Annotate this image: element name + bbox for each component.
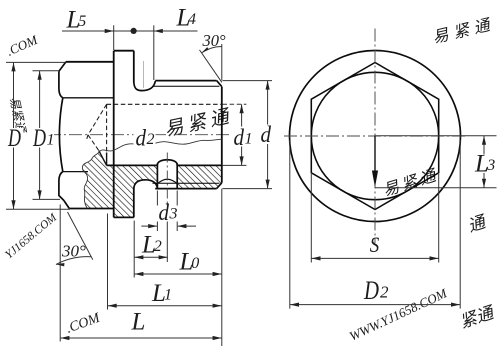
bore bottom wall right bbox=[177, 164, 222, 166]
svg-text:5: 5 bbox=[78, 13, 86, 30]
end chamfer top bbox=[217, 81, 222, 87]
thread OD top bbox=[155, 80, 216, 82]
30deg top slant bbox=[200, 50, 222, 82]
svg-text:D: D bbox=[32, 125, 46, 152]
svg-text:D: D bbox=[363, 276, 379, 305]
ext d1 bottom bbox=[223, 164, 247, 166]
30deg top arc bbox=[202, 47, 222, 53]
center vertical line bbox=[374, 29, 376, 244]
dim D line bbox=[13, 62, 15, 209]
collar right edge upper bbox=[133, 51, 135, 82]
dim d3 line left bbox=[141, 225, 157, 227]
ext L3 bottom bbox=[375, 187, 497, 189]
svg-text:3: 3 bbox=[169, 206, 178, 223]
ext groove right top bbox=[153, 25, 155, 80]
arrow d bottom bbox=[266, 180, 270, 189]
thread root top bbox=[153, 85, 220, 87]
dim L1 line bbox=[108, 305, 222, 307]
arrow L2 left bbox=[134, 255, 143, 259]
svg-text:D: D bbox=[7, 125, 21, 152]
neck groove top arc bbox=[134, 81, 156, 91]
collar bottom edge bbox=[114, 216, 134, 218]
svg-text:.COM: .COM bbox=[64, 310, 103, 336]
ext d1 top bbox=[223, 103, 247, 105]
30deg bottom slant bbox=[68, 212, 93, 260]
neck groove bottom arc bbox=[134, 180, 158, 189]
hex face line lower bbox=[63, 171, 88, 173]
svg-text:S: S bbox=[370, 232, 380, 257]
d3 hole inner arc bbox=[157, 179, 177, 184]
30deg bottom arc bbox=[56, 257, 91, 265]
arrow L4 bbox=[154, 29, 163, 33]
ext S right bbox=[438, 174, 440, 263]
label d1 bbox=[232, 127, 252, 147]
svg-text:d: d bbox=[136, 126, 147, 151]
hexagon bbox=[311, 63, 438, 210]
arrow d1 bottom bbox=[240, 156, 244, 165]
ext D1 top bbox=[33, 70, 59, 72]
dim L5 line bbox=[62, 30, 134, 32]
label d2 bbox=[134, 127, 156, 147]
svg-text:30°: 30° bbox=[61, 242, 86, 261]
dim L2 line bbox=[134, 256, 168, 258]
end chamfer bottom bbox=[217, 183, 222, 189]
ext d3 right bbox=[176, 191, 178, 232]
arrow d top bbox=[266, 81, 270, 90]
dim S line bbox=[311, 257, 438, 259]
svg-text:1: 1 bbox=[47, 132, 55, 149]
hex head left edge upper bbox=[59, 71, 63, 98]
ext D2 right bbox=[459, 140, 461, 309]
ext right common bbox=[221, 189, 223, 346]
arrow d1 top bbox=[240, 104, 244, 113]
bore hidden line top bbox=[107, 103, 222, 105]
arrow 30 top arc bbox=[202, 47, 209, 53]
30deg top vert ref bbox=[221, 44, 223, 80]
arrow D1 top bbox=[38, 71, 42, 80]
groove centerline faint bbox=[143, 61, 145, 88]
ext D2 left bbox=[289, 140, 291, 309]
ext L1 left bbox=[107, 214, 109, 310]
svg-text:紧通: 紧通 bbox=[457, 303, 497, 332]
hex head bottom chamfer bbox=[64, 201, 69, 209]
bore shoulder hidden bbox=[106, 104, 108, 152]
depth pointer shaft bbox=[374, 136, 376, 173]
ext d3 left bbox=[156, 191, 158, 232]
arrow L3 top bbox=[482, 136, 486, 145]
svg-text:4: 4 bbox=[188, 11, 196, 28]
hex head bottom edge bbox=[69, 208, 113, 210]
ext d top bbox=[223, 80, 273, 82]
dot terminator L5/L4 bbox=[131, 28, 137, 34]
hex head top edge bbox=[66, 61, 114, 63]
arrow S right bbox=[430, 256, 439, 260]
d3 hole left wall bbox=[156, 163, 158, 188]
arrow D top bbox=[11, 62, 15, 71]
dim d3 line right bbox=[178, 225, 196, 227]
bore cone lower solid bbox=[99, 151, 107, 166]
center horizontal line bbox=[284, 135, 467, 137]
bore shoulder solid bbox=[106, 153, 108, 166]
collar right edge lower bbox=[133, 188, 135, 218]
label d bbox=[258, 125, 273, 145]
svg-text:2: 2 bbox=[154, 238, 162, 255]
thread root bottom bbox=[153, 182, 220, 184]
arrow D2 right bbox=[451, 303, 460, 307]
arrow L3 bottom bbox=[482, 179, 486, 188]
arrow L right bbox=[213, 336, 222, 340]
collar top edge bbox=[114, 50, 134, 52]
arrow d3 right bbox=[177, 224, 186, 228]
ext D top bbox=[6, 61, 66, 63]
arrow L2 right bbox=[159, 255, 168, 259]
end face bbox=[221, 87, 223, 183]
dim d1 line bbox=[241, 104, 243, 165]
svg-text:1: 1 bbox=[245, 131, 253, 148]
arrow L1 right bbox=[213, 304, 222, 308]
ext L left / 30deg ref bbox=[59, 205, 61, 342]
outer circle D2 bbox=[290, 51, 461, 222]
arrow D2 left bbox=[290, 303, 299, 307]
svg-text:易紧通: 易紧通 bbox=[163, 106, 235, 141]
svg-text:易紧通: 易紧通 bbox=[431, 15, 496, 47]
svg-text:易紧通: 易紧通 bbox=[381, 166, 441, 200]
svg-text:YJ1658.COM: YJ1658.COM bbox=[3, 211, 60, 262]
label L3 bbox=[474, 155, 499, 174]
label D1 bbox=[31, 128, 54, 148]
arrow L0 right bbox=[213, 272, 222, 276]
break scallop boundary bbox=[82, 152, 99, 209]
arrows left view bbox=[11, 28, 269, 340]
arrow 30 bottom arc bbox=[56, 263, 65, 266]
arrow L left bbox=[60, 336, 69, 340]
svg-text:d: d bbox=[159, 200, 170, 225]
arrow d3 left bbox=[148, 224, 157, 228]
hex head left edge lower bbox=[59, 172, 64, 201]
arrow L0 left bbox=[134, 272, 143, 276]
depth pointer head bbox=[372, 171, 378, 188]
svg-text:d: d bbox=[234, 125, 245, 150]
inner circle bbox=[311, 72, 438, 199]
hex head top chamfer bbox=[59, 62, 66, 71]
ext S left bbox=[310, 174, 312, 263]
svg-text:3: 3 bbox=[486, 157, 495, 174]
arrow D bottom bbox=[11, 200, 15, 209]
dim D1 line bbox=[39, 71, 41, 200]
svg-text:2: 2 bbox=[380, 283, 389, 302]
ext d bottom bbox=[223, 188, 273, 190]
ext collar left top bbox=[113, 25, 115, 50]
d3 hole centerline bbox=[166, 153, 168, 204]
arrow L5 bbox=[105, 29, 114, 33]
svg-text:通: 通 bbox=[465, 212, 489, 236]
arrow D1 bottom bbox=[38, 190, 42, 199]
svg-text:0: 0 bbox=[191, 255, 199, 272]
svg-text:2: 2 bbox=[147, 131, 155, 148]
label D bbox=[7, 128, 24, 148]
ext D bottom bbox=[6, 208, 70, 210]
hex head left mid arc bbox=[59, 98, 62, 172]
svg-text:.COM: .COM bbox=[4, 31, 41, 58]
thread OD bottom bbox=[155, 188, 216, 190]
d3 hole dome bbox=[157, 160, 177, 165]
watermark top-right bbox=[431, 15, 496, 47]
d3 hole right wall bbox=[176, 163, 178, 188]
svg-text:d: d bbox=[261, 122, 272, 147]
svg-text:1: 1 bbox=[164, 287, 172, 304]
arrow S left bbox=[312, 256, 321, 260]
svg-text:30°: 30° bbox=[202, 31, 227, 50]
collar left edge bbox=[113, 51, 115, 218]
dim L line bbox=[60, 337, 222, 339]
dim L0 line bbox=[134, 273, 222, 275]
bore cone upper hidden bbox=[86, 104, 106, 140]
label d3 bbox=[157, 206, 179, 222]
dim d line bbox=[267, 81, 269, 189]
break wavy line bbox=[100, 139, 222, 151]
ext D1 bottom bbox=[33, 198, 61, 200]
dim D2 line bbox=[290, 304, 460, 306]
svg-text:L: L bbox=[131, 309, 146, 336]
arrow L1 left bbox=[108, 304, 117, 308]
hex face line upper bbox=[63, 97, 114, 99]
axis centerline bbox=[48, 134, 253, 136]
ext L3 top bbox=[375, 135, 497, 137]
svg-text:WWW.YJ1658.COM: WWW.YJ1658.COM bbox=[347, 285, 450, 344]
dim L3 line bbox=[483, 136, 485, 188]
bore cone lower hidden bbox=[88, 135, 99, 151]
ext d3 center bbox=[166, 203, 168, 262]
ext L2-L0 left bbox=[133, 221, 135, 278]
hatch section region right of hole bbox=[177, 165, 222, 188]
hatch section region main bbox=[82, 152, 157, 218]
dim L4 line bbox=[134, 30, 198, 32]
bore bottom wall left bbox=[107, 164, 158, 166]
